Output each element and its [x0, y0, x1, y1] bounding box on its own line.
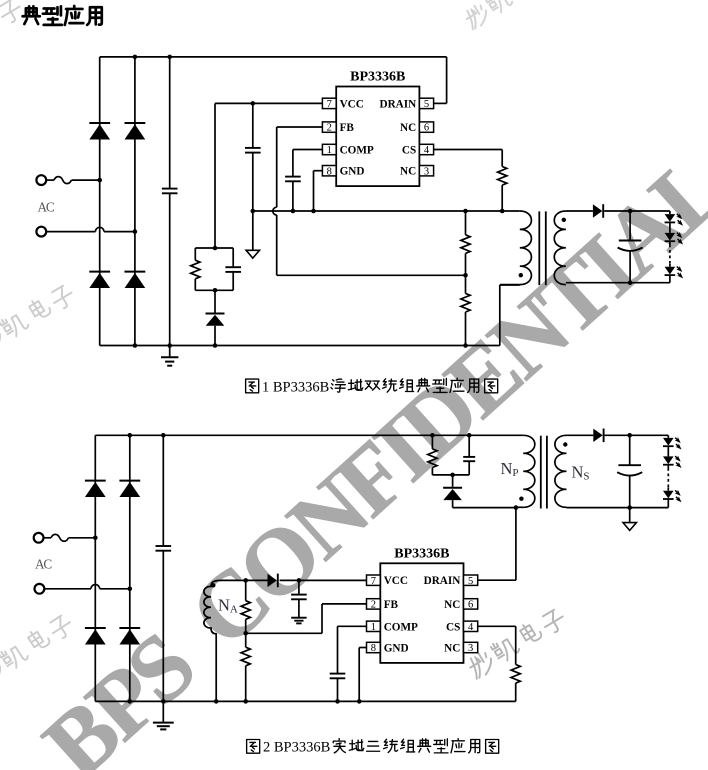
svg-text:COMP: COMP [384, 621, 418, 633]
auxiliary winding Na (fig2) [204, 580, 246, 701]
wire: fig1 COMP cap to rail [292, 181, 294, 211]
fuse F2 (fig2) [44, 534, 69, 541]
bridge diode D8 (fig2) [119, 481, 140, 497]
LED6 (fig2) [663, 490, 682, 503]
U1 pin 8 (GND) [322, 166, 364, 178]
wire: fig1 float gnd stem [252, 211, 254, 250]
polarity dot Na (fig2) [211, 583, 215, 587]
wire: fig1 divider mid lead [465, 275, 467, 293]
junction: fig2 primary bottom / drain [514, 505, 519, 510]
svg-text:6: 6 [468, 600, 473, 611]
svg-text:2: 2 [371, 600, 376, 611]
wire: fig1 VCC cap branch bottom [252, 153, 254, 211]
floating ground symbol (fig1) [246, 250, 259, 258]
svg-text:FB: FB [384, 599, 399, 611]
wire: fig1 RC to diode D5 [214, 290, 216, 312]
junction: fig2 output cap bottom [627, 505, 632, 510]
wire: fig2 LED dotted continuation [667, 465, 669, 490]
AC terminal top (fig1) [36, 175, 46, 185]
wire: fig1 AC neutral with hop [46, 227, 134, 231]
wire: fig2 snubber bottom side [432, 474, 469, 476]
junction: fig1 float rail / C2 [251, 209, 256, 214]
junction: fig2 Na top / divider [243, 578, 248, 583]
wire: fig1 RC top side [195, 247, 233, 249]
wire: fig2 secondary top [567, 434, 594, 436]
polarity dot T1 secondary (fig1) [562, 218, 566, 222]
resistor R3 (divider upper, fig1) [461, 235, 470, 254]
LED4 (fig2) [663, 437, 682, 450]
diode D12 output rectifier (fig2) [593, 429, 603, 443]
AC terminal bottom (fig1) [36, 227, 46, 237]
junction: fig1 bottom rail / bus cap [167, 343, 172, 348]
svg-text:VCC: VCC [340, 98, 364, 110]
wire: fig2 bottom rail [95, 700, 515, 702]
svg-text:1 BP3336B: 1 BP3336B [262, 379, 329, 395]
floating ground symbol (fig2) [623, 523, 636, 531]
resistor R5 (snubber, fig2) [428, 449, 437, 468]
watermark hanzi top-right [462, 0, 557, 30]
wire: fig1 drain drop from top rail [434, 57, 447, 104]
svg-text:3: 3 [468, 643, 473, 654]
svg-text:3: 3 [424, 166, 429, 177]
fuse F1 (fig1) [46, 177, 71, 184]
wire: fig1 output cap top lead [629, 211, 631, 241]
ground (earth small) fig2 VCC [291, 618, 306, 624]
wire: fig1 step to primary bottom [500, 285, 520, 346]
wire: fig1 D5 to bottom rail [214, 326, 216, 346]
svg-text:FB: FB [340, 122, 355, 134]
svg-text:1: 1 [371, 622, 376, 633]
junction: fig1 bottom rail / divider [463, 343, 468, 348]
junction: fig2 snubber R top [430, 433, 435, 438]
resistor R2 (CS sense, fig1) [498, 167, 507, 186]
wire: fig2 secondary gnd stem [629, 508, 631, 522]
junction: fig1 VCC / C2 branch [251, 101, 256, 106]
wire: fig1 secondary bottom [566, 282, 670, 284]
junction: fig2 output cap top [627, 433, 632, 438]
junction: fig2 Na bottom / rail [214, 699, 219, 704]
U1 pin 6 (NC) [400, 122, 434, 134]
wire: fig2 snubber C bottom lead [468, 461, 470, 475]
junction: fig1 float rail / divider top [463, 209, 468, 214]
svg-text:DRAIN: DRAIN [380, 98, 417, 110]
heading hanzi (Typical Applications) [23, 6, 102, 25]
wire: fig2 CS resistor to rail [515, 683, 517, 701]
wire: fig1 AC live to bridge [72, 179, 100, 181]
svg-text:5: 5 [424, 99, 429, 110]
capacitor C6 bus (fig2) [156, 546, 172, 551]
label Np winding [501, 459, 519, 479]
junction: fig2 AC live / bridge left [93, 536, 98, 541]
wire: fig1 C3 leads [232, 248, 234, 290]
wire: fig2 drain vertical [515, 508, 517, 581]
svg-text:4: 4 [424, 145, 430, 156]
resistor R1 (startup, fig1) [191, 260, 200, 279]
junction: fig2 bottom rail / bus cap [161, 699, 166, 704]
junction: fig2 VCC cap branch [297, 578, 302, 583]
svg-text:2: 2 [327, 123, 332, 134]
wire: fig1 RC bottom side [195, 289, 233, 291]
transformer T2 core (fig2) [541, 436, 547, 509]
resistor R4 (divider lower, fig1) [461, 293, 470, 312]
wire: fig2 snubber R top lead [431, 435, 433, 449]
svg-text:NC: NC [400, 166, 416, 178]
svg-text:CS: CS [446, 621, 460, 633]
U2 pin 5 (DRAIN) [424, 575, 478, 587]
junction: fig2 AC neutral / bridge right [128, 587, 133, 592]
ground (earth) fig1 [161, 346, 178, 366]
watermark hanzi left-middle [0, 281, 77, 355]
wire: fig2 COMP cap to rail [337, 678, 339, 701]
bridge diode D2 (fig1) [124, 123, 145, 139]
wire: fig1 LED dotted continuation [669, 242, 671, 267]
svg-text:4: 4 [468, 622, 474, 633]
wire: fig2 divider top lead [245, 580, 247, 600]
junction: fig2 snubber / clamp diode [450, 473, 455, 478]
junction: fig1 float rail / CS resistor [500, 209, 505, 214]
caption figure 1 [246, 378, 498, 395]
junction: fig1 top rail / bus cap [167, 55, 172, 60]
svg-text:6: 6 [424, 123, 429, 134]
wire: fig2 divider bottom lead [245, 666, 247, 702]
U1 pin 2 (FB) [322, 122, 354, 134]
polarity dot T1 primary (fig1) [519, 273, 523, 277]
capacitor C9 VCC (fig2) [291, 595, 307, 600]
U2 pin 2 (FB) [367, 599, 399, 611]
LED2 (fig1) [665, 232, 684, 245]
svg-text:8: 8 [371, 643, 376, 654]
svg-text:AC: AC [38, 199, 55, 214]
polarity dot T2 Np (fig2) [519, 497, 523, 501]
capacitor C4 COMP (fig1) [285, 177, 301, 182]
wire: fig2 AC neutral with hop [45, 585, 130, 589]
junction: fig2 top rail / bridge right [128, 433, 133, 438]
U2 pin 3 (NC) [444, 642, 478, 654]
label AC (fig2) [35, 557, 52, 572]
junction: fig1 float rail / COMP cap [291, 209, 296, 214]
label Na winding [218, 596, 238, 616]
wire: fig2 snubber C top lead [468, 435, 470, 457]
U1 pin 1 (COMP) [322, 144, 374, 156]
wire: fig2 Na to diode [246, 579, 268, 581]
capacitor C10 COMP (fig2) [330, 674, 346, 679]
diode D5 (fig1) [206, 314, 225, 326]
svg-text:5: 5 [468, 576, 473, 587]
wire: fig2 output plus [605, 434, 669, 436]
junction: fig1 top rail / bridge right [133, 55, 138, 60]
wire: fig2 clamp diode to primary bottom [452, 500, 454, 508]
svg-text:AC: AC [35, 557, 52, 572]
wire: fig2 VCC cap top lead [298, 580, 300, 594]
wire: fig2 CS net [478, 626, 516, 664]
wire: fig2 FB route [246, 604, 367, 633]
U2 pin 8 (GND) [367, 642, 409, 654]
svg-text:COMP: COMP [340, 145, 374, 157]
wire: fig1 output cap bottom lead [629, 251, 631, 283]
junction: fig1 output cap bottom [628, 280, 633, 285]
wire: fig1 GND pin to rail [314, 171, 323, 211]
svg-text:BP3336B: BP3336B [394, 546, 449, 561]
wire: fig1 secondary top [566, 210, 593, 212]
wire: fig2 VCC line [280, 579, 367, 581]
watermark hanzi top-left corner [0, 0, 25, 70]
caption figure 2 [247, 739, 499, 756]
wire: fig2 secondary bottom [567, 507, 669, 509]
junction: fig2 COMP / rail [335, 699, 340, 704]
transformer T2 primary Np winding (fig2) [523, 435, 535, 507]
wire: fig1 DC bus top rail [100, 56, 447, 58]
diode D6 output rectifier (fig1) [593, 204, 603, 218]
svg-text:CS: CS [402, 145, 416, 157]
svg-text:7: 7 [371, 576, 376, 587]
junction: fig1 RC bottom [213, 288, 218, 293]
U2 pin 1 (COMP) [367, 621, 419, 633]
wire: fig1 COMP net [293, 150, 323, 177]
wire: fig1 floating ground rail [253, 210, 520, 212]
junction: fig2 top rail / bus cap [161, 433, 166, 438]
AC terminal bottom (fig2) [35, 584, 45, 594]
junction: fig2 divider bottom / rail [243, 699, 248, 704]
junction: fig1 divider mid / FB [463, 273, 468, 278]
junction: fig1 bottom rail / startup diode [213, 343, 218, 348]
wire: fig2 LED string bottom lead [667, 500, 669, 508]
svg-text:1: 1 [327, 145, 332, 156]
LED5 (fig2) [663, 456, 682, 469]
bridge diode D9 (fig2) [85, 628, 106, 644]
U1 pin 7 (VCC) [322, 98, 363, 110]
U2 pin 6 (NC) [444, 599, 478, 611]
U1 pin 4 (CS) [402, 144, 434, 156]
wire: fig1 divider top lead [465, 211, 467, 235]
wire: fig2 COMP net [338, 626, 367, 673]
svg-text:7: 7 [327, 99, 332, 110]
junction: fig1 RC top [213, 246, 218, 251]
watermark hanzi right-middle [465, 605, 567, 679]
junction: fig2 divider mid / FB [243, 631, 248, 636]
wire: fig2 bridge right leg [129, 435, 131, 701]
capacitor C1 bus (fig1) [162, 189, 178, 194]
junction: fig1 AC live / bridge left [97, 178, 102, 183]
bridge diode D4 (fig1) [124, 272, 145, 288]
wire: fig1 bus cap branch [169, 57, 171, 346]
junction: fig1 output cap top [628, 209, 633, 214]
U1 pin 3 (NC) [400, 166, 434, 178]
capacitor C5 output (fig1) [618, 241, 643, 251]
svg-text:8: 8 [327, 166, 332, 177]
wire: fig1 output plus [604, 210, 670, 212]
capacitor C7 (snubber, fig2) [463, 457, 475, 461]
wire: fig2 divider mid lead [245, 633, 247, 647]
wire: fig1 divider bottom lead [465, 312, 467, 346]
wire: fig2 LED4-LED5 [667, 447, 669, 457]
transformer T1 core (fig1) [539, 211, 546, 285]
watermark text BPS CONFIDENTIAL (diagonal grey) [24, 136, 708, 770]
wire: fig2 clamp diode top lead [452, 475, 454, 487]
capacitor C8 output (fig2) [617, 465, 642, 475]
wire: fig1 bridge right leg [134, 57, 136, 346]
bridge diode D10 (fig2) [119, 628, 140, 644]
svg-text:GND: GND [384, 643, 409, 655]
svg-text:BP3336B: BP3336B [350, 70, 405, 85]
wire: fig2 DRAIN pin link [478, 579, 516, 581]
wire: fig1 VCC cap branch top [252, 103, 254, 147]
LED3 (fig1) [665, 266, 684, 279]
wire: fig2 divider mid [245, 619, 247, 633]
wire: fig1 divider mid [465, 253, 467, 275]
junction: fig1 bottom rail / bridge right [133, 343, 138, 348]
polarity dot T2 Ns (fig2) [563, 442, 567, 446]
watermark hanzi bottom-left [0, 611, 76, 688]
svg-text:NC: NC [444, 643, 460, 655]
transformer T1 primary winding (fig1) [520, 211, 532, 285]
wire: fig1 bottom rail [100, 345, 500, 347]
wire: fig2 bridge left leg [94, 435, 96, 701]
wire: fig2 AC live to bridge [69, 537, 96, 539]
capacitor C3 (parallel RC, fig1) [225, 267, 241, 272]
bridge diode D3 (fig1) [89, 272, 110, 288]
junction: fig1 AC neutral / bridge right [133, 229, 138, 234]
U2 pin 4 (CS) [446, 621, 478, 633]
svg-text:GND: GND [340, 166, 365, 178]
U2 pin 7 (VCC) [367, 575, 408, 587]
IC U1 BP3336B body [336, 70, 419, 187]
resistor R7 (divider lower, fig2) [241, 647, 250, 666]
wire: fig1 R1 leads [194, 248, 196, 290]
junction: fig2 GND / rail [357, 699, 362, 704]
wire: fig2 bus cap branch [162, 435, 164, 701]
wire: fig1 CS resistor to rail [501, 185, 503, 211]
wire: fig2 snubber R bottom lead [431, 468, 433, 475]
junction: fig2 bottom rail / bridge right [128, 699, 133, 704]
U1 pin 5 (DRAIN) [380, 98, 434, 110]
wire: fig1 LED1-LED2 [669, 223, 671, 233]
wire: fig1 CS net [434, 150, 503, 167]
resistor R8 (CS sense, fig2) [511, 665, 520, 684]
wire: fig2 output cap bottom lead [629, 476, 631, 508]
label Ns winding [572, 463, 590, 483]
wire: fig2 output cap top lead [629, 435, 631, 465]
transformer T2 secondary Ns winding (fig2) [555, 435, 567, 507]
wire: fig2 primary bottom link [453, 507, 516, 509]
svg-text:DRAIN: DRAIN [424, 575, 461, 587]
wire: fig1 VCC net [215, 103, 322, 248]
bridge diode D1 (fig1) [89, 123, 110, 139]
svg-text:NC: NC [400, 122, 416, 134]
resistor R6 (divider upper, fig2) [241, 601, 250, 620]
bridge diode D7 (fig2) [85, 481, 106, 497]
wire: fig1 LED string top lead [669, 211, 671, 214]
wire: fig2 Np bottom exit [516, 506, 523, 508]
ground (earth) fig2 [153, 701, 174, 729]
LED1 (fig1) [665, 213, 684, 226]
transformer T1 secondary winding (fig1) [554, 211, 566, 285]
svg-text:VCC: VCC [384, 575, 408, 587]
IC U2 BP3336B body [380, 546, 463, 663]
junction: fig1 float rail / GND pin [311, 209, 316, 214]
wire: fig2 VCC cap gnd stem [298, 599, 300, 617]
wire: fig1 FB net [273, 127, 466, 275]
AC terminal top (fig2) [34, 533, 44, 543]
diode D13 VCC rectifier (fig2) [268, 574, 278, 588]
label AC (fig1) [38, 199, 55, 214]
capacitor C2 VCC (fig1) [245, 148, 261, 153]
wire: fig2 DC bus top rail [95, 434, 523, 436]
svg-text:2 BP3336B: 2 BP3336B [263, 740, 330, 756]
wire: fig2 GND pin to rail [359, 648, 366, 702]
diode D11 clamp (fig2) [443, 488, 462, 500]
wire: fig1 bridge left leg [99, 57, 101, 346]
wire: fig1 LED string bottom lead [669, 276, 671, 283]
svg-text:NC: NC [444, 599, 460, 611]
junction: fig2 snubber C top [467, 433, 472, 438]
wire: fig2 LED string top lead [667, 435, 669, 438]
